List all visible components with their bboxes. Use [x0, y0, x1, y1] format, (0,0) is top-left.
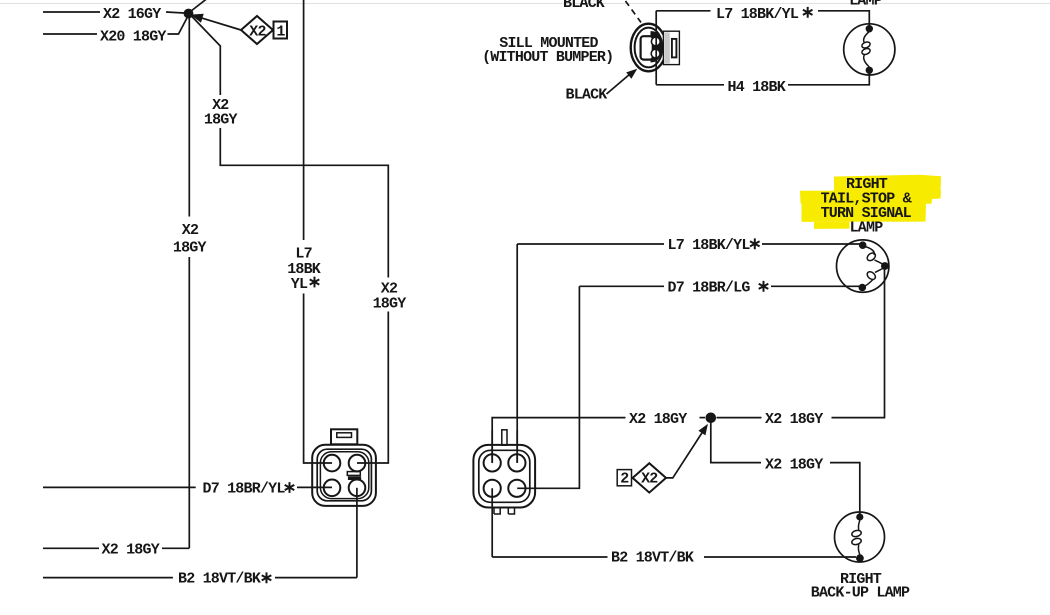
- svg-text:X2 16GY: X2 16GY: [103, 6, 161, 23]
- svg-text:D7 18BR/LG: D7 18BR/LG: [668, 280, 751, 297]
- svg-text:2: 2: [620, 471, 629, 488]
- svg-text:LAMP: LAMP: [850, 220, 884, 237]
- svg-text:LAMP: LAMP: [849, 0, 883, 10]
- svg-text:B2 18VT/BK: B2 18VT/BK: [611, 550, 694, 567]
- svg-text:BLACK: BLACK: [563, 0, 605, 12]
- svg-text:X2: X2: [249, 24, 266, 41]
- svg-text:H4 18BK: H4 18BK: [728, 79, 786, 96]
- svg-text:1: 1: [276, 24, 285, 41]
- svg-text:18GY: 18GY: [173, 240, 207, 257]
- svg-text:(WITHOUT BUMPER): (WITHOUT BUMPER): [482, 49, 613, 66]
- svg-text:YL: YL: [291, 276, 308, 293]
- svg-text:D7 18BR/YL: D7 18BR/YL: [203, 481, 286, 498]
- svg-text:L7: L7: [295, 245, 311, 262]
- svg-text:BLACK: BLACK: [566, 86, 608, 103]
- svg-text:X2 18GY: X2 18GY: [629, 411, 687, 428]
- svg-text:X20 18GY: X20 18GY: [100, 29, 166, 46]
- svg-text:18GY: 18GY: [373, 295, 407, 312]
- svg-text:X2: X2: [182, 222, 199, 239]
- svg-text:B2 18VT/BK: B2 18VT/BK: [178, 571, 261, 588]
- svg-text:X2 18GY: X2 18GY: [102, 542, 160, 559]
- svg-text:X2 18GY: X2 18GY: [765, 411, 823, 428]
- svg-text:18GY: 18GY: [204, 112, 238, 129]
- svg-text:X2: X2: [641, 471, 658, 488]
- svg-text:BACK-UP LAMP: BACK-UP LAMP: [811, 585, 910, 602]
- svg-text:L7 18BK/YL: L7 18BK/YL: [668, 237, 751, 254]
- svg-text:X2 18GY: X2 18GY: [765, 457, 823, 474]
- svg-text:L7 18BK/YL: L7 18BK/YL: [716, 6, 799, 23]
